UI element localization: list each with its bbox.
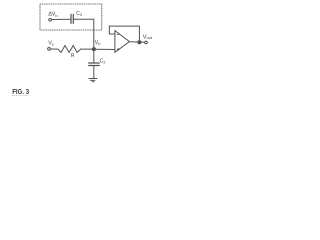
wire (output)	[130, 41, 145, 44]
output terminal circle (Vout)	[145, 41, 148, 44]
resistor R	[58, 46, 81, 53]
wire	[74, 18, 94, 20]
ground	[89, 79, 97, 82]
svg-text:R: R	[71, 53, 75, 59]
wire (feedback loop)	[109, 26, 139, 42]
source terminal circle (Vs)	[48, 48, 51, 51]
dashed enclosure box	[40, 4, 102, 30]
node Vb junction	[92, 48, 95, 51]
op-amp plus input mark	[117, 48, 119, 50]
svg-text:C2: C2	[100, 58, 106, 64]
wire	[93, 66, 95, 79]
op-amp minus input mark	[117, 34, 119, 36]
op-amp U1	[115, 31, 130, 53]
capacitor C2	[89, 63, 100, 66]
wire	[52, 18, 71, 20]
wire	[95, 48, 115, 50]
svg-text:C3: C3	[76, 11, 82, 17]
svg-text:Vout: Vout	[143, 34, 153, 40]
svg-text:ΔVb: ΔVb	[48, 12, 58, 18]
svg-text:Vs: Vs	[48, 40, 53, 46]
wire	[50, 48, 58, 50]
source terminal circle (ΔVb)	[49, 18, 52, 21]
node output junction	[138, 41, 141, 44]
figure caption underline	[12, 95, 29, 97]
capacitor C3	[71, 14, 73, 23]
svg-text:FIG. 3: FIG. 3	[12, 89, 29, 96]
wire	[93, 51, 95, 63]
wire	[93, 19, 95, 49]
wire	[81, 48, 93, 50]
svg-text:Vb: Vb	[95, 40, 101, 46]
